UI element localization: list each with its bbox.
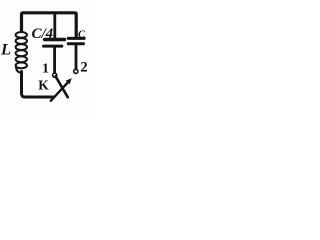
node 1 contact circle [53,73,57,77]
switch K arrow [51,82,68,100]
svg-text:L: L [0,40,11,59]
capacitor C/4 plates [45,38,65,41]
wire left vertical below coil [22,72,55,98]
svg-text:K: K [38,78,49,93]
svg-text:C: C [78,30,86,41]
wire C bottom stub [75,45,78,69]
wire C/4 stub from top wire [53,15,56,39]
inductor L coil [16,32,27,73]
svg-text:1: 1 [42,62,49,77]
svg-text:2: 2 [80,60,87,76]
wire top horizontal [22,13,77,37]
wire C/4 bottom stub [53,48,56,73]
svg-text:C/4: C/4 [32,26,54,42]
capacitor C plates [68,37,84,40]
switch K lever [56,76,68,97]
switch K arrowhead [66,78,72,84]
node 2 contact circle [74,69,78,73]
